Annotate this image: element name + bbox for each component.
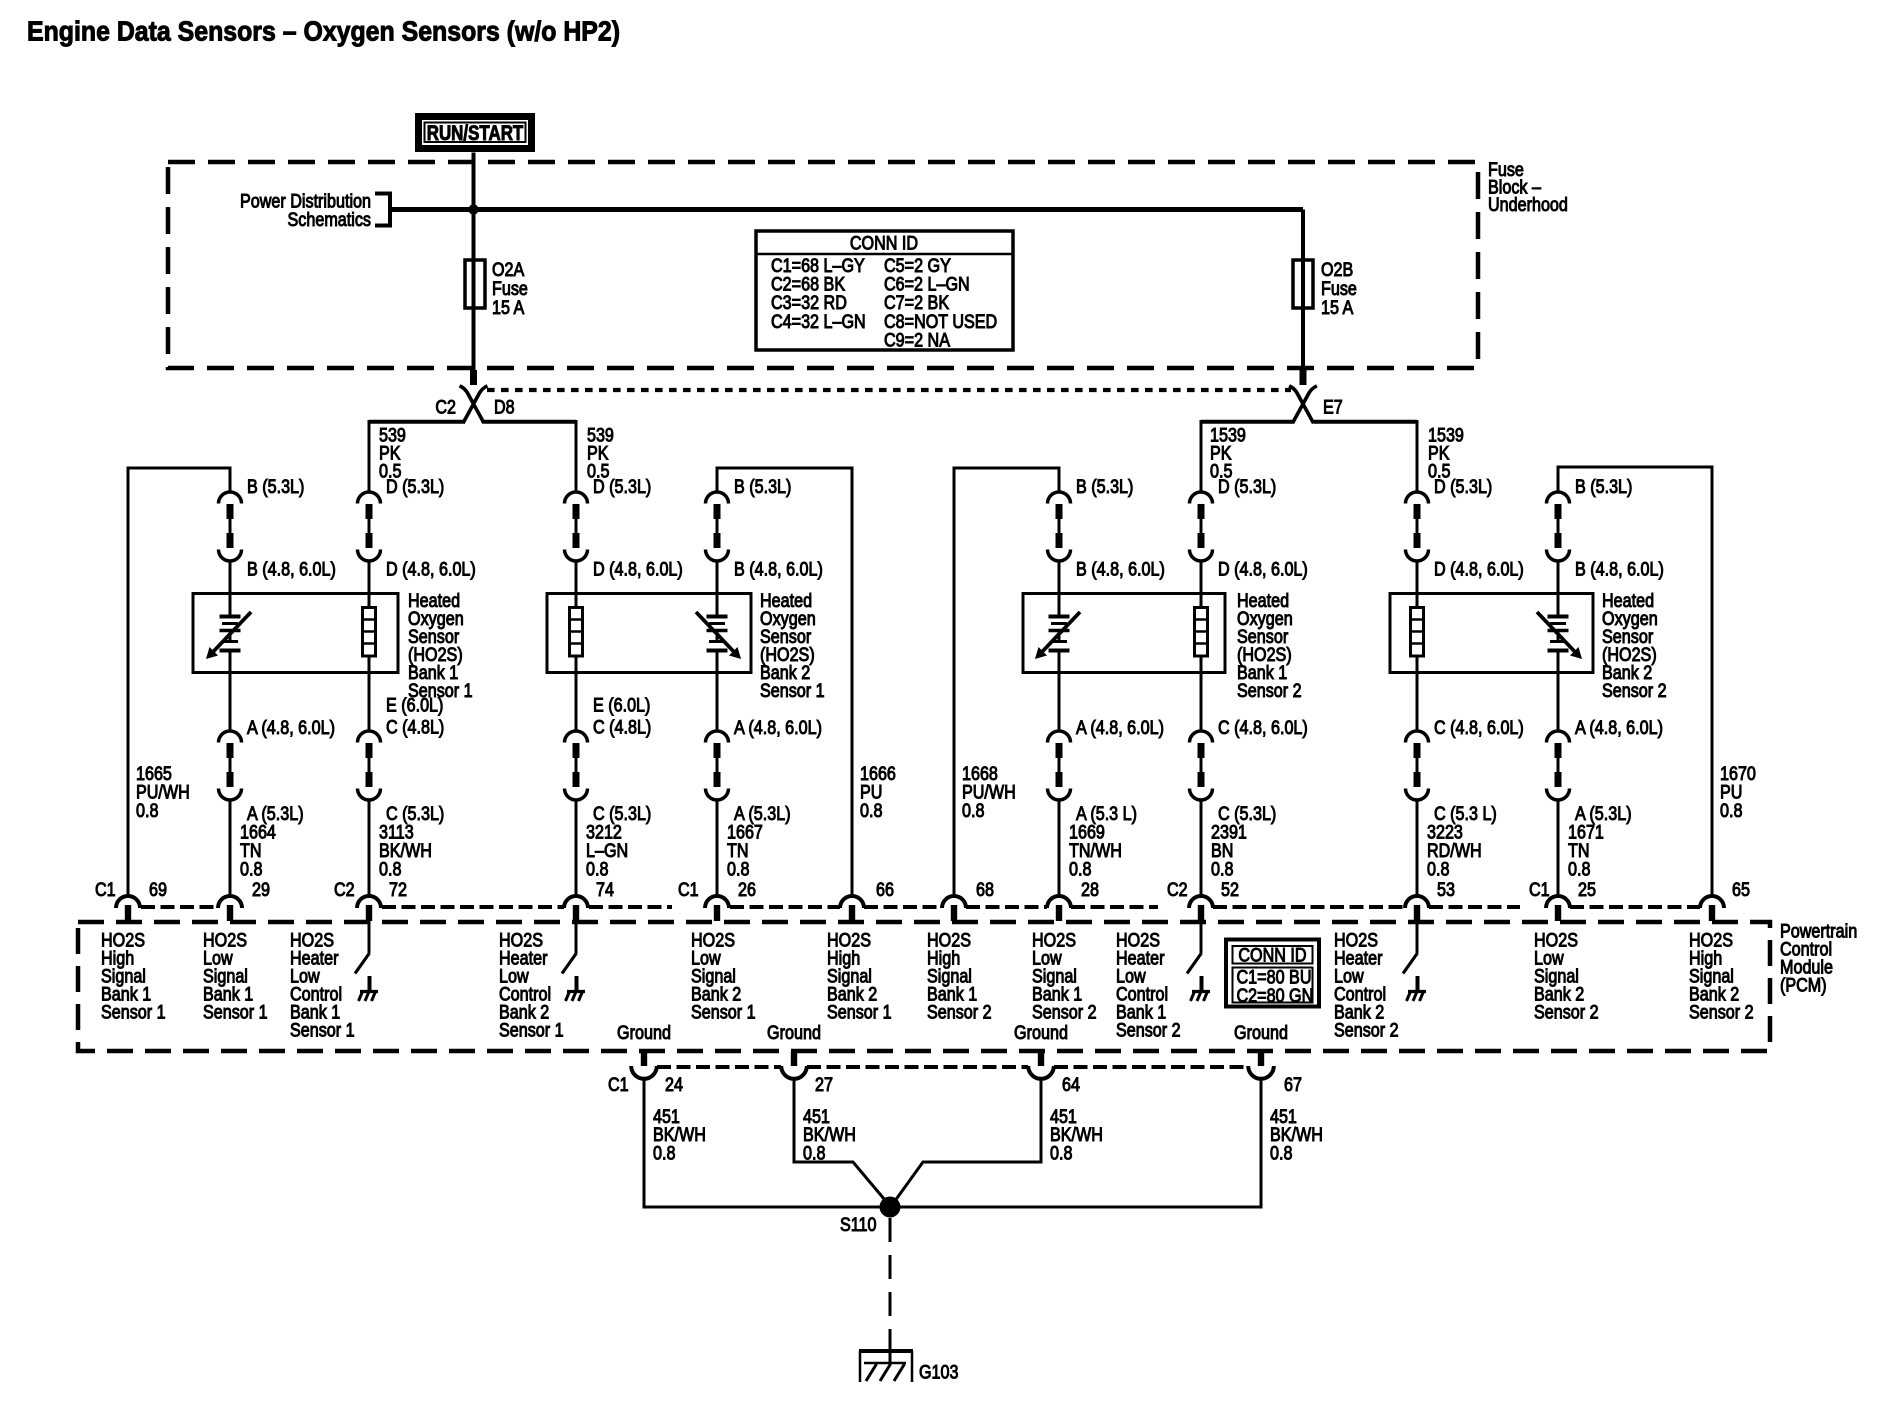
svg-text:D (4.8, 6.0L): D (4.8, 6.0L) — [593, 559, 683, 580]
svg-text:53: 53 — [1437, 880, 1455, 901]
svg-text:C (4.8, 6.0L): C (4.8, 6.0L) — [1218, 718, 1308, 739]
PCM top pin terminal @576 — [564, 896, 588, 908]
fuse block - underhood dashed box — [168, 162, 1478, 368]
svg-text:29: 29 — [252, 880, 270, 901]
svg-text:E (6.0L): E (6.0L) — [593, 695, 650, 716]
wire: feed horizontal — [390, 207, 1303, 212]
fuse O2A — [465, 260, 485, 308]
connector E7 (pass-through) — [1291, 387, 1313, 422]
PCM top pin terminal @369 — [357, 896, 381, 908]
wire: S110 to G103 (dashed) — [889, 1218, 892, 1338]
svg-text:B (4.8, 6.0L): B (4.8, 6.0L) — [1076, 559, 1165, 580]
PCM bottom pin terminal @1261 — [1258, 1051, 1264, 1066]
sensing element (battery) B2S1 — [707, 615, 728, 619]
inline connector pair upper (B1S1 heater) — [358, 492, 381, 503]
wire: C2/D8 left branch — [369, 420, 464, 424]
svg-text:Ground: Ground — [617, 1023, 671, 1044]
svg-text:D (5.3L): D (5.3L) — [1218, 477, 1276, 498]
wire: B1S1 heater box to lower connector — [368, 672, 371, 731]
svg-text:D (4.8, 6.0L): D (4.8, 6.0L) — [386, 559, 476, 580]
inline connector pair upper (B2S1 heater) — [565, 492, 588, 504]
PCM bottom pin terminal @794 — [791, 1051, 797, 1066]
svg-text:D (5.3L): D (5.3L) — [593, 477, 651, 498]
svg-text:69: 69 — [149, 880, 167, 901]
wire: B1S2 heater box to lower connector — [1200, 672, 1203, 731]
wire: B1S1 heater to PCM pin — [368, 800, 371, 897]
heater resistor B1S1 — [368, 594, 371, 608]
svg-text:RUN/START: RUN/START — [427, 121, 524, 145]
svg-text:B (4.8, 6.0L): B (4.8, 6.0L) — [734, 559, 823, 580]
svg-text:(PCM): (PCM) — [1780, 975, 1827, 996]
svg-text:CONN ID: CONN ID — [850, 233, 918, 254]
sensor box HO2S Bank 1 Sensor 1 — [193, 594, 398, 673]
svg-text:CONN ID: CONN ID — [1238, 945, 1306, 966]
inline connector pair upper (B1S1 signal) — [219, 492, 242, 504]
svg-text:B (5.3L): B (5.3L) — [247, 477, 304, 498]
svg-text:0.8: 0.8 — [1720, 801, 1743, 822]
svg-text:68: 68 — [976, 880, 994, 901]
PCM top pin terminal @852 — [840, 896, 864, 908]
svg-text:D8: D8 — [494, 397, 515, 418]
svg-text:Sensor 2: Sensor 2 — [1689, 1002, 1754, 1023]
svg-text:Sensor 2: Sensor 2 — [1602, 681, 1667, 702]
svg-text:28: 28 — [1081, 880, 1099, 901]
svg-text:C2: C2 — [435, 397, 456, 418]
bracket (power distribution) — [375, 194, 390, 226]
wire: B1S1 signal to sensor box — [229, 561, 232, 594]
svg-text:0.8: 0.8 — [1427, 859, 1450, 880]
heater driver switch and ground @1417 — [1416, 921, 1419, 953]
svg-text:Ground: Ground — [1234, 1023, 1288, 1044]
inline connector pair upper (B2S2 heater) — [1406, 492, 1429, 504]
svg-text:Sensor 2: Sensor 2 — [1534, 1002, 1599, 1023]
svg-text:B (5.3L): B (5.3L) — [1076, 477, 1133, 498]
inline connector pair upper (B2S1 signal) — [706, 492, 729, 504]
svg-text:66: 66 — [876, 880, 894, 901]
svg-text:Sensor 2: Sensor 2 — [927, 1002, 992, 1023]
dashed connector line C2/D8 to E7 — [487, 388, 1291, 392]
svg-text:E (6.0L): E (6.0L) — [386, 695, 443, 716]
inline connector pair lower (B2S1 signal) — [706, 731, 729, 743]
inline connector pair lower (B2S1 heater) — [565, 731, 588, 743]
svg-text:27: 27 — [815, 1075, 833, 1096]
wire: B1S1 signal box to lower connector — [229, 672, 232, 731]
svg-text:Sensor 1: Sensor 1 — [290, 1020, 355, 1041]
wire: fuse O2B to connector E7 — [1301, 308, 1305, 374]
svg-text:S110: S110 — [840, 1215, 877, 1236]
svg-text:A (4.8, 6.0L): A (4.8, 6.0L) — [734, 718, 822, 739]
svg-text:C (4.8L): C (4.8L) — [593, 717, 651, 738]
sensor box HO2S Bank 2 Sensor 2 — [1390, 594, 1593, 673]
svg-text:C1: C1 — [95, 880, 116, 901]
svg-text:0.8: 0.8 — [1211, 859, 1234, 880]
splice S110 — [880, 1197, 901, 1218]
svg-text:B (5.3L): B (5.3L) — [734, 477, 791, 498]
wire: feed down to fuse O2B — [1301, 210, 1305, 263]
wire: group2 signal loop — [717, 468, 852, 897]
svg-text:24: 24 — [665, 1075, 683, 1096]
svg-text:C4=32 L–GN: C4=32 L–GN — [771, 312, 866, 333]
dotted connector line (PCM bottom row) — [657, 1065, 781, 1069]
svg-text:0.8: 0.8 — [1270, 1143, 1293, 1164]
svg-text:O2A: O2A — [492, 260, 525, 281]
wire: B2S2 signal to sensor box — [1557, 561, 1560, 594]
wire: group3 signal loop — [954, 468, 1059, 897]
inline connector pair upper (B2S2 signal) — [1547, 492, 1570, 504]
svg-text:Sensor 2: Sensor 2 — [1334, 1020, 1399, 1041]
svg-text:B (4.8, 6.0L): B (4.8, 6.0L) — [247, 559, 336, 580]
svg-text:0.8: 0.8 — [727, 859, 750, 880]
svg-text:B (4.8, 6.0L): B (4.8, 6.0L) — [1575, 559, 1664, 580]
svg-text:Sensor 1: Sensor 1 — [827, 1002, 892, 1023]
svg-text:0.8: 0.8 — [136, 801, 159, 822]
wire: C2/D8 right branch — [484, 420, 576, 424]
heater resistor B1S2 — [1200, 594, 1203, 608]
svg-text:15 A: 15 A — [492, 298, 525, 319]
PCM dashed box — [78, 922, 1770, 1051]
PCM top pin terminal @1059 — [1047, 896, 1071, 908]
RUN/START box — [419, 117, 532, 149]
wire: B1S1 heater to sensor box — [368, 561, 371, 594]
svg-text:Sensor 1: Sensor 1 — [691, 1002, 756, 1023]
svg-text:74: 74 — [596, 880, 614, 901]
wire: fuse O2B inner — [1301, 262, 1305, 308]
wire: B1S1 signal to PCM pin — [229, 800, 232, 897]
svg-text:C9=2 NA: C9=2 NA — [884, 331, 950, 352]
fuse O2B — [1293, 260, 1313, 308]
svg-text:Schematics: Schematics — [288, 210, 372, 231]
wire: B2S1 heater box to lower connector — [575, 672, 578, 731]
svg-text:25: 25 — [1578, 880, 1596, 901]
PCM top pin terminal @1712 — [1700, 896, 1724, 908]
svg-text:52: 52 — [1221, 880, 1239, 901]
sensor box HO2S Bank 2 Sensor 1 — [547, 594, 751, 673]
heater driver switch and ground @369 — [368, 921, 371, 953]
wire: B2S2 heater to sensor box — [1416, 561, 1419, 594]
wire: B2S2 signal box to lower connector — [1557, 672, 1560, 731]
PCM top pin terminal @1417 — [1405, 896, 1429, 908]
svg-text:D (5.3L): D (5.3L) — [386, 477, 444, 498]
svg-text:D (4.8, 6.0L): D (4.8, 6.0L) — [1434, 559, 1524, 580]
svg-text:C1: C1 — [1529, 880, 1550, 901]
PCM top pin terminal @1558 — [1546, 896, 1570, 908]
wire: pin24 to S110 — [644, 1079, 884, 1208]
svg-text:Sensor 1: Sensor 1 — [499, 1020, 564, 1041]
wire: B2S2 heater box to lower connector — [1416, 672, 1419, 731]
wire: pin67 to S110 — [896, 1079, 1261, 1208]
heater resistor B2S2 — [1416, 594, 1419, 608]
svg-text:0.8: 0.8 — [860, 801, 883, 822]
svg-text:C1: C1 — [608, 1075, 629, 1096]
svg-text:Sensor 2: Sensor 2 — [1237, 681, 1302, 702]
wire: B2S1 heater to sensor box — [575, 561, 578, 594]
svg-text:Ground: Ground — [1014, 1023, 1068, 1044]
svg-text:C2: C2 — [1167, 880, 1188, 901]
svg-text:C (4.8, 6.0L): C (4.8, 6.0L) — [1434, 718, 1524, 739]
wire: junction down to fuse O2A — [472, 210, 476, 263]
wire: pin27 to S110 — [794, 1079, 890, 1207]
CONN ID table (PCM) — [1226, 940, 1319, 1007]
svg-text:G103: G103 — [919, 1362, 959, 1383]
inline connector pair lower (B1S1 heater) — [358, 731, 381, 742]
svg-text:0.8: 0.8 — [379, 859, 402, 880]
wire: B2S1 signal box to lower connector — [716, 672, 719, 731]
svg-text:Sensor 1: Sensor 1 — [203, 1002, 268, 1023]
wire: group1 signal loop — [128, 468, 230, 897]
svg-text:0.8: 0.8 — [586, 859, 609, 880]
wire: G103 stub — [889, 1338, 892, 1364]
wire: B2S1 heater to PCM pin — [575, 800, 578, 897]
svg-text:0.8: 0.8 — [653, 1143, 676, 1164]
svg-text:C2: C2 — [334, 880, 355, 901]
svg-text:0.8: 0.8 — [240, 859, 263, 880]
inline connector pair lower (B1S2 signal) — [1048, 731, 1071, 743]
inline connector pair lower (B2S2 signal) — [1547, 731, 1570, 743]
PCM top pin terminal @717 — [705, 896, 729, 908]
junction dot — [468, 204, 478, 214]
wire: fuse O2A inner — [472, 262, 476, 308]
wire: B2S2 signal to PCM pin — [1557, 800, 1560, 897]
wire: E7 right branch — [1314, 420, 1418, 424]
svg-text:26: 26 — [738, 880, 756, 901]
svg-text:C1: C1 — [678, 880, 699, 901]
svg-text:Engine Data Sensors – Oxygen S: Engine Data Sensors – Oxygen Sensors (w/… — [27, 16, 620, 47]
svg-text:Fuse: Fuse — [1321, 279, 1357, 300]
wire: group4 signal loop — [1558, 467, 1712, 897]
wire: B1S2 signal box to lower connector — [1058, 672, 1061, 731]
connector C2/D8 (pass-through) — [461, 387, 483, 422]
heater driver switch and ground @1201 — [1200, 921, 1203, 953]
PCM bottom pin terminal @1041 — [1038, 1051, 1044, 1066]
svg-text:15 A: 15 A — [1321, 298, 1354, 319]
svg-text:A (4.8, 6.0L): A (4.8, 6.0L) — [1076, 718, 1164, 739]
wire: fuse O2A to connector C2/D8 — [472, 308, 476, 374]
svg-text:Underhood: Underhood — [1488, 195, 1568, 216]
svg-text:D (4.8, 6.0L): D (4.8, 6.0L) — [1218, 559, 1308, 580]
svg-text:64: 64 — [1062, 1075, 1080, 1096]
wire: E7 left branch — [1201, 420, 1293, 424]
dotted connector line (PCM top row) — [141, 905, 218, 909]
svg-text:Sensor 1: Sensor 1 — [101, 1002, 166, 1023]
inline connector pair lower (B1S2 heater) — [1190, 731, 1213, 743]
svg-text:Sensor 2: Sensor 2 — [1032, 1002, 1097, 1023]
inline connector pair lower (B2S2 heater) — [1406, 731, 1429, 743]
svg-text:67: 67 — [1284, 1075, 1302, 1096]
svg-text:Ground: Ground — [767, 1023, 821, 1044]
svg-text:A (4.8, 6.0L): A (4.8, 6.0L) — [247, 718, 335, 739]
svg-text:C (4.8L): C (4.8L) — [386, 717, 444, 738]
svg-text:A (4.8, 6.0L): A (4.8, 6.0L) — [1575, 718, 1663, 739]
svg-text:Fuse: Fuse — [492, 279, 528, 300]
heater driver switch and ground @576 — [575, 921, 578, 953]
PCM top pin terminal @1201 — [1189, 896, 1213, 908]
CONN ID table (fuse block) — [756, 231, 1013, 350]
inline connector pair upper (B1S2 signal) — [1048, 492, 1071, 504]
sensing element (battery) B2S2 — [1548, 615, 1569, 619]
wire: B1S2 signal to sensor box — [1058, 561, 1061, 594]
wire: B2S1 signal to PCM pin — [716, 800, 719, 897]
svg-text:0.8: 0.8 — [1069, 859, 1092, 880]
svg-text:B (5.3L): B (5.3L) — [1575, 477, 1632, 498]
PCM bottom pin terminal @644 — [641, 1051, 647, 1066]
svg-text:0.8: 0.8 — [1050, 1143, 1073, 1164]
svg-text:72: 72 — [389, 880, 407, 901]
wire: B1S2 heater to PCM pin — [1200, 800, 1203, 897]
svg-text:Sensor 2: Sensor 2 — [1116, 1020, 1181, 1041]
wire: pin64 to S110 — [892, 1079, 1041, 1206]
wire: B2S2 heater to PCM pin — [1416, 800, 1419, 897]
PCM top pin terminal @128 — [116, 896, 140, 908]
wire: B1S2 signal to PCM pin — [1058, 800, 1061, 897]
PCM top pin terminal @954 — [942, 896, 966, 908]
svg-text:0.8: 0.8 — [962, 801, 985, 822]
sensing element (battery) B1S1 — [220, 615, 241, 619]
ground G103 symbol — [859, 1349, 913, 1353]
svg-text:0.8: 0.8 — [1568, 859, 1591, 880]
svg-text:D (5.3L): D (5.3L) — [1434, 477, 1492, 498]
svg-text:C2=80 GN: C2=80 GN — [1237, 986, 1314, 1007]
wire: B2S1 signal to sensor box — [716, 561, 719, 594]
PCM top pin terminal @230 — [218, 896, 242, 908]
sensing element (battery) B1S2 — [1049, 615, 1070, 619]
inline connector pair lower (B1S1 signal) — [219, 731, 242, 743]
wire: B1S2 heater to sensor box — [1200, 561, 1203, 594]
svg-text:E7: E7 — [1323, 397, 1343, 418]
svg-text:Sensor 1: Sensor 1 — [760, 681, 825, 702]
sensor box HO2S Bank 1 Sensor 2 — [1023, 594, 1225, 673]
svg-text:65: 65 — [1732, 880, 1750, 901]
heater resistor B2S1 — [575, 594, 578, 608]
svg-text:O2B: O2B — [1321, 260, 1353, 281]
inline connector pair upper (B1S2 heater) — [1190, 492, 1213, 504]
wire: RUN/START down to junction — [472, 153, 476, 210]
